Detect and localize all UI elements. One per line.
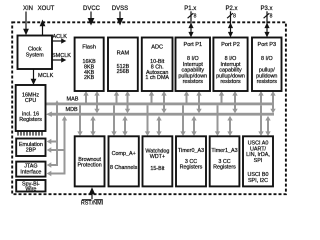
chip boundary dashed border (12, 22, 286, 194)
wire ADC-MAB (149, 91, 154, 104)
wire Flash-MAB (83, 91, 88, 104)
bus MDB (horizontal bar) (52, 113, 275, 116)
wire bus drop to Emulation/JTAG (left vertical 2) (62, 116, 67, 174)
svg-text:Flash: Flash (82, 45, 96, 51)
svg-text:Port P2: Port P2 (221, 42, 240, 48)
wire PortP2-MDB (232, 91, 237, 113)
svg-text:P3.x: P3.x (260, 6, 272, 12)
svg-text:1 ch DMA: 1 ch DMA (145, 75, 169, 81)
clock output ACLK (52, 34, 67, 44)
svg-text:Registers: Registers (213, 165, 236, 171)
svg-text:8: 8 (270, 14, 273, 20)
svg-text:Timer1_A3: Timer1_A3 (211, 148, 237, 154)
bus MAB (horizontal bar) (46, 103, 275, 106)
svg-text:SPI: SPI (254, 158, 263, 164)
wire bus drop to Emulation/JTAG (left vertical 1) (54, 100, 59, 166)
svg-text:DVCC: DVCC (83, 6, 101, 12)
wire MDB-CompA (122, 116, 127, 136)
block Port P2 (213, 38, 247, 92)
wire MAB-Timer1 (215, 105, 220, 136)
svg-text:Timer0_A3: Timer0_A3 (178, 148, 204, 154)
pin P3.x (260, 6, 272, 37)
block Watchdog WDT+ (143, 136, 173, 186)
svg-text:8: 8 (233, 14, 236, 20)
clock output SMCLK (52, 53, 71, 63)
block Brownout Protection (75, 136, 105, 186)
svg-text:Interface: Interface (20, 169, 41, 175)
svg-text:ADC: ADC (151, 45, 163, 51)
wire MAB-Timer0 (180, 105, 185, 136)
wire MDB-Timer0 (191, 116, 196, 136)
pin P1.x (184, 6, 196, 37)
block Emulation 2BP (16, 139, 45, 157)
wire Flash-MDB (94, 91, 99, 113)
wire MAB-Watchdog (145, 105, 150, 136)
svg-text:RST/NMI: RST/NMI (81, 201, 103, 207)
svg-text:Wire: Wire (25, 187, 36, 193)
svg-text:8 I/O: 8 I/O (261, 56, 273, 62)
wire MDB-USCI (265, 116, 270, 136)
svg-text:MCLK: MCLK (38, 73, 54, 79)
svg-text:8 Channels: 8 Channels (110, 165, 138, 171)
svg-text:256B: 256B (117, 69, 130, 75)
svg-text:P1.x: P1.x (184, 6, 196, 12)
svg-text:ACLK: ACLK (53, 34, 68, 40)
block Clock System (18, 36, 53, 70)
block ADC (142, 38, 173, 92)
svg-text:Comp_A+: Comp_A+ (112, 151, 136, 157)
pin XOUT (38, 6, 55, 36)
svg-text:Protection: Protection (77, 163, 101, 169)
block USCI (243, 136, 273, 186)
svg-text:8: 8 (194, 14, 197, 20)
svg-text:MAB: MAB (67, 97, 79, 103)
svg-text:15-Bit: 15-Bit (150, 166, 165, 172)
wire into JTAG (upper) (47, 162, 58, 167)
svg-text:Port P3: Port P3 (257, 42, 276, 48)
svg-text:resistors: resistors (183, 79, 204, 85)
svg-text:XOUT: XOUT (38, 6, 55, 12)
wire PortP3-MDB (270, 91, 275, 113)
wire PortP1-MDB (196, 91, 201, 113)
block JTAG Interface (16, 162, 45, 177)
wire RAM-MDB (125, 91, 130, 113)
wire MDB-Brownout (90, 116, 95, 136)
wire RAM-MAB (114, 91, 119, 104)
CPU-Emulation comb (18, 132, 42, 136)
wire PortP1-MAB (184, 91, 189, 104)
MDB arrowhead into CPU (46, 112, 52, 117)
wire into Emulation (lower) (47, 147, 66, 152)
pin DVSS (112, 6, 128, 26)
wire ADC-MDB (161, 91, 166, 113)
svg-text:CPU: CPU (25, 98, 36, 104)
svg-text:Registers: Registers (180, 165, 203, 171)
block Port P1 (176, 38, 211, 92)
svg-text:2KB: 2KB (84, 75, 95, 81)
wire MDB-Watchdog (156, 116, 161, 136)
block Flash (75, 38, 104, 92)
clock output MCLK to CPU (31, 69, 54, 85)
pin P2.x (225, 6, 237, 37)
wire PortP3-MAB (258, 91, 263, 104)
svg-text:RAM: RAM (117, 51, 130, 57)
block Comp_A+ (109, 136, 139, 186)
block Port P3 (252, 38, 282, 92)
wire into Emulation (upper) (47, 139, 58, 144)
svg-text:MDB: MDB (66, 107, 79, 113)
block Timer1_A3 (210, 136, 240, 186)
svg-text:System: System (26, 53, 44, 59)
svg-text:XIN: XIN (23, 6, 33, 12)
svg-text:resistors: resistors (257, 79, 278, 85)
svg-text:Port P1: Port P1 (183, 42, 202, 48)
svg-text:resistors: resistors (220, 79, 241, 85)
wire MAB-USCI (258, 105, 263, 136)
svg-text:P2.x: P2.x (225, 6, 237, 12)
wire PortP2-MAB (219, 91, 224, 104)
wire MDB-Timer1 (227, 116, 232, 136)
block Timer0_A3 (176, 136, 206, 186)
svg-text:2BP: 2BP (26, 148, 37, 154)
svg-text:DVSS: DVSS (112, 6, 128, 12)
wire MAB-Brownout (77, 105, 82, 136)
block RAM (108, 38, 138, 92)
wire MAB-CompA (111, 105, 116, 136)
pin DVCC (83, 6, 101, 26)
svg-text:WDT+: WDT+ (150, 154, 165, 160)
svg-text:Registers: Registers (19, 117, 42, 123)
block CPU (16, 85, 46, 131)
svg-text:SPI, I2C: SPI, I2C (248, 178, 268, 184)
block Spy-Bi-Wire (16, 180, 45, 192)
pin XIN (23, 6, 33, 35)
pin RST/NMI (81, 187, 103, 206)
wire into JTAG (lower) (47, 171, 66, 176)
